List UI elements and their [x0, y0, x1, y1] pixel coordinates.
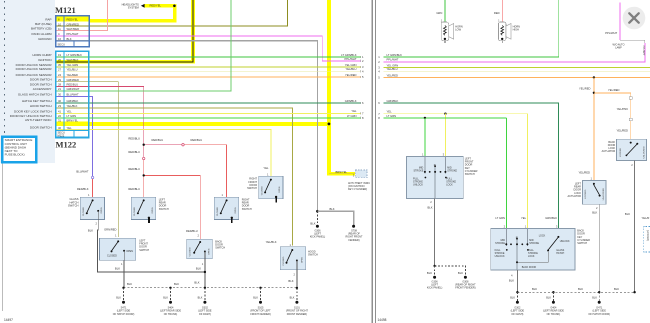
svg-text:LOCKED: LOCKED: [620, 148, 622, 157]
glass hatch switch: [80, 197, 104, 219]
svg-text:LT GRN: LT GRN: [495, 216, 505, 220]
svg-text:GRN/WHT: GRN/WHT: [67, 87, 80, 91]
svg-text:YEL: YEL: [521, 216, 527, 220]
svg-text:YEL/BLU: YEL/BLU: [67, 67, 78, 71]
right edge continuation marker (blue dashed): [644, 227, 650, 253]
svg-text:GRN/RED: GRN/RED: [67, 78, 79, 82]
svg-text:YEL/BLU: YEL/BLU: [345, 67, 356, 71]
svg-text:30: 30: [58, 93, 61, 97]
svg-text:BLK: BLK: [253, 297, 258, 300]
svg-text:LOCKED: LOCKED: [585, 189, 587, 198]
inline connector on RED/BLU vertical: [143, 157, 145, 159]
wire YEL/RED M122 row5 (pin 24): [57, 76, 361, 78]
svg-text:YEL/R: YEL/R: [642, 216, 650, 220]
svg-text:40: 40: [58, 99, 61, 103]
svg-text:16: 16: [58, 37, 61, 41]
svg-text:STROKE: STROKE: [413, 169, 423, 172]
svg-text:ACCESSORY: ACCESSORY: [33, 87, 52, 91]
inline connector on RED/BLU branch: [182, 144, 184, 146]
BLK dashed drop to G306: [316, 211, 318, 225]
left page ground rail dashed: [124, 287, 297, 289]
svg-text:LOCK: LOCK: [539, 234, 546, 237]
svg-text:SWITCH: SWITCH: [139, 249, 149, 252]
svg-text:YEL/BLK: YEL/BLK: [67, 104, 78, 108]
left page border dashed: [4, 1, 6, 161]
left page border solid lower: [2, 162, 4, 311]
svg-text:BLK: BLK: [427, 271, 432, 275]
svg-text:RED/YEL: RED/YEL: [150, 4, 162, 8]
wire BLU/WHT M122 row9 (pin 30) to glass hatch switch: [57, 97, 93, 177]
M121 row texts: [58, 18, 80, 47]
wire 5 YEL/RED right page: [384, 77, 650, 79]
svg-text:RED/BLU: RED/BLU: [128, 137, 140, 141]
svg-text:10: 10: [58, 22, 61, 26]
wire RED/BLU branch to back door switch: [144, 175, 201, 239]
left page edge wire labels and pins: [341, 53, 357, 118]
splice S708: [352, 225, 355, 228]
left rear door switch: [131, 197, 155, 223]
svg-text:N: N: [434, 164, 436, 167]
svg-text:YEL/PNK: YEL/PNK: [617, 107, 629, 111]
svg-text:OF DASH): OF DASH): [511, 313, 523, 316]
wire crossing overlays (wires pass over highlight bands): [93, 19, 332, 127]
svg-text:SWITCH: SWITCH: [68, 204, 79, 208]
svg-text:BLK: BLK: [592, 297, 597, 300]
svg-text:LOCK: LOCK: [446, 184, 453, 187]
svg-text:SWITCH: SWITCH: [308, 254, 318, 257]
svg-text:DOOR UNLOCK SENSOR: DOOR UNLOCK SENSOR: [16, 73, 53, 77]
M122 table border and grid: [56, 51, 89, 137]
svg-text:20: 20: [58, 58, 61, 62]
svg-text:40: 40: [58, 126, 61, 130]
headlights wire junction dot: [173, 5, 176, 8]
headlights system arrow: [141, 4, 145, 8]
splice S404: [160, 307, 181, 316]
svg-text:OPEN: OPEN: [126, 250, 133, 253]
page divider: [371, 0, 373, 323]
wire YEL GRN M122 row3 (pin 35): [57, 66, 361, 68]
svg-text:SWITCH: SWITCH: [215, 247, 225, 250]
ground drops right page: [517, 292, 599, 301]
svg-text:FUSE BLOCK): FUSE BLOCK): [5, 153, 25, 157]
svg-text:LT GRN/BLK: LT GRN/BLK: [67, 53, 83, 57]
svg-text:ANTI-THEFT INDIC: ANTI-THEFT INDIC: [25, 118, 52, 122]
hood switch: [280, 247, 306, 270]
wire WHT/BLK M122 row2 (pin 20) highlighted ignition: [57, 0, 195, 64]
svg-text:LT GRN: LT GRN: [387, 114, 397, 118]
smart entrance control unit callout box: [2, 137, 36, 162]
svg-text:DOOR SWITCH: DOOR SWITCH: [30, 126, 52, 130]
svg-text:22: 22: [58, 114, 61, 118]
svg-text:M122: M122: [56, 140, 77, 150]
ground drops left page: [124, 288, 297, 301]
svg-text:FENDER): FENDER): [348, 239, 359, 242]
wire WHT/RED crossing RED/YEL band: [107, 19, 109, 24]
right page wire name labels: [387, 53, 403, 118]
horn low: [441, 22, 454, 43]
svg-text:LAMP: LAMP: [615, 47, 622, 50]
svg-text:YEL/RED: YEL/RED: [387, 73, 399, 77]
svg-text:OPEN: OPEN: [152, 207, 154, 214]
svg-text:OPEN: OPEN: [279, 186, 281, 193]
wire YEL M122 row15 thick highlighted anti-theft: [89, 0, 355, 176]
ground G308: [455, 280, 476, 289]
svg-text:OPEN: OPEN: [208, 248, 210, 255]
svg-text:BLK: BLK: [509, 278, 514, 282]
svg-text:HOOD SWITCH: HOOD SWITCH: [30, 104, 52, 108]
svg-text:14497: 14497: [4, 318, 13, 322]
svg-text:PANIC ALARM: PANIC ALARM: [32, 32, 52, 36]
svg-text:LOW: LOW: [455, 29, 461, 32]
svg-text:RED/BLU: RED/BLU: [128, 150, 140, 154]
svg-text:SYSTEM: SYSTEM: [128, 6, 140, 10]
svg-text:BLK: BLK: [290, 297, 295, 300]
BLK branch to S708: [317, 211, 353, 225]
wire YEL/RED branch to back door lock actuator: [594, 93, 631, 140]
svg-text:YEL/RED: YEL/RED: [579, 86, 591, 90]
svg-text:23: 23: [58, 104, 61, 108]
svg-text:UNLOCK: UNLOCK: [413, 184, 423, 187]
svg-text:OF HATCH DOOR): OF HATCH DOOR): [588, 313, 610, 316]
svg-text:PPL/WHT: PPL/WHT: [605, 31, 617, 35]
svg-text:SWITCH: SWITCH: [465, 173, 475, 176]
svg-text:YEL GRN: YEL GRN: [387, 63, 399, 67]
svg-text:LT GRN: LT GRN: [347, 114, 357, 118]
svg-text:GRN: GRN: [436, 11, 442, 15]
left front door key cylinder switch: [407, 153, 464, 199]
svg-text:ACTUATOR: ACTUATOR: [602, 150, 616, 153]
svg-text:STROKE: STROKE: [447, 169, 457, 172]
svg-text:HATCH KEY SWITCH: HATCH KEY SWITCH: [22, 99, 52, 103]
svg-text:DOOR UNLOCK SENSOR: DOOR UNLOCK SENSOR: [16, 67, 53, 71]
svg-text:GRN/BLK: GRN/BLK: [345, 99, 357, 103]
right page ground rail dashed: [517, 291, 634, 293]
wire 6 GRN/BLK right page to back door key cylinder switch: [384, 103, 559, 229]
svg-text:PPL/WHT: PPL/WHT: [642, 46, 644, 57]
svg-text:GRN/BLK: GRN/BLK: [67, 99, 79, 103]
svg-text:LT GRN/BLK: LT GRN/BLK: [341, 53, 357, 57]
wire RED/BLU branch to right rear door switch: [144, 144, 182, 146]
svg-text:STROKE: STROKE: [495, 242, 505, 245]
svg-text:OPEN: OPEN: [235, 207, 237, 214]
svg-text:SWITCH: SWITCH: [242, 208, 252, 211]
svg-text:BLK: BLK: [127, 282, 132, 286]
svg-text:BLK: BLK: [174, 282, 179, 286]
svg-text:CLOSED: CLOSED: [283, 256, 285, 265]
svg-text:BLK: BLK: [67, 37, 72, 41]
svg-text:RED/BLU: RED/BLU: [152, 138, 164, 142]
svg-text:DOOR KEY LOCK SWITCH: DOOR KEY LOCK SWITCH: [14, 109, 51, 113]
svg-text:19: 19: [58, 53, 61, 57]
wire GRN/WHT M122 row8 (pin 21) up to top: [57, 0, 231, 91]
svg-text:21: 21: [58, 87, 61, 91]
horn high: [498, 22, 511, 43]
left sidebar panel: [0, 0, 55, 163]
inline connectors on back door lock wire: [629, 97, 632, 100]
left rear door lock actuator: [582, 180, 606, 204]
wire GRN/BLK M122 row10 (pin 40) to page edge: [57, 102, 361, 104]
svg-text:OPEN: OPEN: [302, 256, 304, 263]
svg-text:BLK: BLK: [310, 221, 315, 225]
svg-text:ACTUATOR: ACTUATOR: [567, 195, 581, 198]
wires crossing anti-theft highlight vertical: [327, 56, 332, 58]
svg-text:GRN/BLK: GRN/BLK: [387, 99, 399, 103]
svg-text:RED/BLU: RED/BLU: [67, 83, 79, 87]
svg-text:24: 24: [58, 73, 61, 77]
svg-text:STROKE: STROKE: [529, 242, 539, 245]
svg-text:RED/BLU: RED/BLU: [186, 229, 198, 233]
svg-text:GRN/RED: GRN/RED: [104, 228, 116, 232]
svg-text:LOCK: LOCK: [528, 255, 535, 258]
BLK ground junction dot: [316, 210, 319, 213]
svg-text:HATCH: HATCH: [556, 252, 564, 255]
svg-text:DOOR SWITCH: DOOR SWITCH: [30, 82, 52, 86]
svg-text:BLK: BLK: [614, 287, 619, 291]
right page mid ground G306: [433, 265, 435, 267]
splice S105: [250, 307, 271, 316]
right rear door switch: [214, 197, 238, 223]
inline connector on BLU/WHT: [91, 176, 93, 178]
svg-text:WHT/BLK: WHT/BLK: [67, 58, 79, 62]
ground G302 left page: [198, 307, 212, 316]
svg-text:YEL: YEL: [263, 166, 269, 170]
svg-text:(LOCKED): (LOCKED): [646, 230, 648, 241]
wire YEL M122 row15 (pin 40) to right front door switch: [57, 129, 271, 176]
svg-text:28: 28: [58, 83, 61, 87]
junction dots RED/BLU: [143, 144, 145, 146]
ground S471: [113, 307, 135, 316]
svg-text:KICK PANEL): KICK PANEL): [310, 236, 326, 239]
svg-text:BLK: BLK: [578, 287, 583, 291]
svg-text:BLK: BLK: [592, 211, 597, 215]
wire GRN/RED M122 row6 (pin 29) to left front door switch: [57, 82, 119, 237]
svg-text:KEY CYLINDER): KEY CYLINDER): [348, 188, 367, 191]
svg-text:SECU: SECU: [58, 42, 66, 46]
svg-text:GRN/BLK: GRN/BLK: [545, 216, 557, 220]
svg-text:BLK: BLK: [163, 297, 168, 300]
left sidebar labels M121: [31, 17, 52, 41]
svg-text:BLK: BLK: [428, 206, 433, 210]
svg-text:SWITCH: SWITCH: [247, 187, 257, 190]
svg-text:FRONT FENDER): FRONT FENDER): [250, 313, 271, 316]
wires crossing WHT/BLK highlight vertical: [191, 25, 196, 27]
ground G404 right page: [543, 307, 564, 316]
svg-text:BLK: BLK: [194, 280, 199, 284]
svg-text:LT GRN/BLK: LT GRN/BLK: [387, 53, 403, 57]
svg-text:BLU/WHT: BLU/WHT: [76, 169, 88, 173]
wire YEL/RED drop to left rear door lock actuator: [593, 78, 595, 181]
ground G302 right page: [511, 307, 525, 316]
splice S101: [286, 307, 309, 316]
wire YEL/BLK M122 row11 (pin 23) to hood switch: [57, 108, 293, 246]
svg-text:BLK: BLK: [625, 212, 630, 216]
svg-text:FRONT FENDER): FRONT FENDER): [455, 287, 476, 290]
wire 2 PPL/WHT right page with W/O AUTO LAMP option: [384, 43, 645, 62]
svg-text:YEL: YEL: [387, 110, 393, 114]
svg-text:BLK: BLK: [198, 297, 203, 300]
svg-text:M122: M122: [58, 134, 65, 138]
ground G471 right page: [588, 307, 610, 316]
svg-text:BACK DOOR: BACK DOOR: [522, 266, 537, 269]
svg-text:BLK: BLK: [196, 267, 201, 271]
junction dot thick yellow: [328, 123, 331, 126]
M122 row texts: [58, 53, 83, 137]
svg-text:BAT (FUSE): BAT (FUSE): [35, 22, 51, 26]
svg-text:SWITCH: SWITCH: [577, 242, 587, 245]
ground G306 left page: [316, 225, 319, 228]
right front door switch: [259, 176, 283, 202]
svg-text:BLU/WHT: BLU/WHT: [67, 93, 79, 97]
wire 1 LT GRN/BLK right page up at x558.7: [384, 0, 559, 57]
svg-text:UNLOCKED: UNLOCKED: [643, 146, 645, 159]
wire YEL M122 row12 (pin 41) to page edge: [57, 112, 361, 114]
left sidebar labels M122: [10, 53, 53, 130]
anti-theft indicator connector (dashed): [355, 170, 367, 178]
svg-text:GRN/RED: GRN/RED: [67, 22, 79, 26]
wire LT GRN M122 row13 (pin 22) to page edge: [57, 117, 361, 119]
svg-text:CLOSED: CLOSED: [83, 207, 85, 216]
wire PPL/WHT M121 row4: [56, 36, 360, 61]
svg-text:RED/BLK: RED/BLK: [77, 187, 89, 191]
wire WHT/RED M121 row3: [56, 0, 107, 31]
svg-text:UNLOCK: UNLOCK: [560, 240, 570, 243]
svg-text:29: 29: [58, 78, 61, 82]
svg-text:BRN/YEL: BRN/YEL: [335, 170, 347, 174]
svg-text:M121: M121: [55, 5, 76, 15]
wire RED/YEL row1 M121 highlighted: [89, 4, 177, 23]
svg-text:HIGH: HIGH: [513, 29, 519, 32]
svg-text:OF TRUNK): OF TRUNK): [164, 313, 178, 316]
svg-text:CLOSED: CLOSED: [107, 255, 117, 258]
svg-text:YEL/RED: YEL/RED: [345, 73, 357, 77]
wires crossing anti-theft highlight band: [92, 121, 94, 126]
svg-text:GROUND: GROUND: [38, 37, 52, 41]
wire 3 YEL GRN right page: [384, 67, 650, 69]
wire 8 LT GRN right page: [384, 117, 507, 119]
right page pin numbers: [378, 55, 380, 120]
svg-text:14498: 14498: [378, 318, 387, 322]
svg-text:BLK: BLK: [532, 287, 537, 291]
svg-text:KICK PANEL): KICK PANEL): [427, 287, 443, 290]
wire RED/BLU M122 row7 (pin 28): [57, 86, 144, 158]
M121 table grid and border: [56, 16, 90, 47]
svg-text:CLOSED: CLOSED: [217, 207, 219, 216]
svg-text:OF TRUNK): OF TRUNK): [547, 313, 561, 316]
svg-text:PPL/WHT: PPL/WHT: [345, 57, 357, 61]
wire 4 YEL/BLU right page: [384, 70, 650, 72]
horn low feed wire GRN: [444, 0, 446, 22]
svg-text:BLK: BLK: [288, 279, 293, 283]
svg-text:27: 27: [58, 67, 61, 71]
svg-text:FRONT FENDER): FRONT FENDER): [287, 313, 308, 316]
svg-text:RED: RED: [494, 11, 500, 15]
wire GRN/RED M121 row2: [89, 0, 287, 26]
svg-text:BLK: BLK: [330, 207, 335, 211]
svg-text:YEL/RED: YEL/RED: [578, 170, 590, 174]
svg-text:OPEN: OPEN: [101, 207, 103, 214]
svg-text:41: 41: [58, 110, 61, 114]
svg-text:YEL: YEL: [67, 110, 73, 114]
svg-text:SWITCH: SWITCH: [159, 208, 169, 211]
svg-text:HORN CHIRP: HORN CHIRP: [32, 53, 51, 57]
svg-text:RED/BLU: RED/BLU: [128, 167, 140, 171]
svg-text:CLOSED: CLOSED: [134, 207, 136, 216]
svg-text:YEL/BLK: YEL/BLK: [266, 240, 277, 244]
back door lock actuator: [617, 139, 647, 160]
wire BLK M121 row5 (ground): [56, 41, 317, 211]
svg-text:35: 35: [58, 63, 61, 67]
svg-text:BLK: BLK: [115, 267, 120, 271]
svg-text:N: N: [516, 236, 518, 239]
svg-text:BLK: BLK: [510, 297, 515, 300]
svg-text:DOOR SWITCH: DOOR SWITCH: [30, 78, 52, 82]
svg-text:31: 31: [58, 118, 61, 122]
wire YEL/BLU M122 row4 (pin 27): [57, 70, 361, 72]
svg-text:BLK: BLK: [546, 297, 551, 300]
svg-text:CLOSED: CLOSED: [190, 247, 192, 256]
svg-text:YEL/RED: YEL/RED: [608, 88, 620, 92]
wire 7 YEL right page: [384, 113, 528, 115]
svg-text:PPL/WHT: PPL/WHT: [387, 58, 399, 62]
svg-text:YEL/RED: YEL/RED: [67, 73, 79, 77]
connector M122 table background: [56, 51, 89, 137]
back door key cylinder switch: [491, 225, 575, 271]
svg-text:BLK: BLK: [88, 229, 93, 233]
connector M121 table: [56, 16, 90, 64]
svg-text:IGNITION: IGNITION: [38, 58, 51, 62]
svg-text:BLK: BLK: [458, 271, 463, 275]
back door switch: [187, 239, 213, 259]
svg-text:YEL/RED: YEL/RED: [616, 129, 628, 133]
svg-text:YEL: YEL: [67, 126, 73, 130]
svg-text:YEL: YEL: [351, 109, 357, 113]
svg-text:PPL/WHT: PPL/WHT: [67, 32, 79, 36]
svg-text:UNLOCKED: UNLOCKED: [603, 188, 605, 201]
svg-text:OF HATCH DOOR): OF HATCH DOOR): [113, 313, 135, 316]
svg-text:GLASS HATCH SWITCH: GLASS HATCH SWITCH: [18, 93, 52, 97]
svg-text:BRN/YEL: BRN/YEL: [67, 118, 79, 122]
horn high feed wire RED: [501, 0, 503, 22]
close button: [623, 7, 646, 30]
svg-text:RED/BLU: RED/BLU: [128, 187, 140, 191]
svg-text:UNLOCK: UNLOCK: [495, 255, 505, 258]
svg-text:BLK: BLK: [116, 297, 121, 300]
left front door switch: [99, 238, 135, 260]
svg-text:RAP: RAP: [45, 17, 51, 21]
svg-text:LT GRN: LT GRN: [67, 114, 77, 118]
svg-text:CLOSED: CLOSED: [262, 186, 264, 195]
svg-text:YEL GRN: YEL GRN: [67, 63, 79, 67]
svg-text:OF DASH): OF DASH): [199, 313, 211, 316]
svg-text:YEL GRN: YEL GRN: [345, 63, 357, 67]
svg-text:BATTERY (CB): BATTERY (CB): [31, 27, 52, 31]
svg-text:WHT/RED: WHT/RED: [67, 27, 80, 31]
wire LT GRN/BLK M122 row1 (pin 19) to page edge: [57, 56, 361, 58]
svg-text:RED/BLU: RED/BLU: [191, 138, 203, 142]
svg-text:RED/YEL: RED/YEL: [67, 18, 79, 22]
